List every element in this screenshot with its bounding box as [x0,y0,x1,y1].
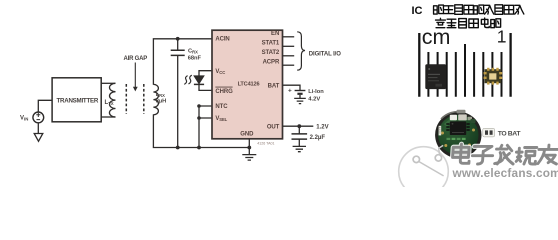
watermark logo [399,145,449,196]
wire [299,95,301,98]
wire CHRG [199,84,212,90]
svg-text:BAT: BAT [268,83,280,89]
junction [197,146,201,150]
coin PCB photo [435,110,481,158]
connector to battery [483,128,495,137]
svg-text:4126 TA01: 4126 TA01 [257,142,274,146]
voltage source VIN [20,112,44,123]
wire [101,116,115,118]
brace digital IO [297,32,305,70]
wire NTC/VSEL to ground rail [199,106,212,148]
op-amp? no: IC U1 LTC4126 body [212,30,283,139]
pin CHRG [215,87,233,95]
svg-text:LTX: LTX [105,100,114,106]
svg-text:VSEL: VSEL [215,116,227,122]
wire [101,82,115,84]
svg-text:EN: EN [271,31,279,37]
svg-text:LTC4126: LTC4126 [238,82,260,88]
transmitter block [52,78,101,122]
ruler ticks [419,33,510,97]
capacitor CRX 68nF [171,39,202,148]
svg-text:STAT2: STAT2 [262,50,280,56]
LED D1 [184,75,204,84]
inductor LRX 8uH [153,84,166,114]
svg-text:OUT: OUT [267,124,280,130]
wire BAT [283,85,301,90]
ground [294,98,306,103]
svg-text:8µH: 8µH [156,99,167,105]
wire OUT 1.2V [283,125,314,127]
watermark text [452,144,558,164]
ground [293,146,306,151]
IC photo bottom view (gold pads chip) [484,68,503,85]
junction [176,146,180,150]
svg-text:GND: GND [240,131,254,137]
junction [247,146,251,150]
svg-text:68nF: 68nF [188,56,202,62]
caption title line 1 [412,5,524,17]
svg-text:CHRG: CHRG [215,89,233,95]
svg-text:NTC: NTC [215,104,228,110]
wire EN stub [283,36,295,38]
svg-text:STAT1: STAT1 [262,41,280,47]
ground [34,123,43,142]
svg-text:ACPR: ACPR [263,60,280,66]
air gap dashed line right [143,84,145,114]
svg-text:+: + [288,88,292,95]
air gap dashed line left [125,84,127,114]
caption title line 2 [436,18,501,28]
junction [176,37,180,41]
svg-text:AIR GAP: AIR GAP [123,56,147,62]
svg-text:cm: cm [422,25,451,49]
svg-text:IC: IC [412,5,423,17]
wire [38,100,52,112]
svg-text:Li-Ion: Li-Ion [308,89,324,95]
wire [153,39,212,85]
svg-text:1: 1 [497,27,507,47]
svg-text:ACIN: ACIN [215,37,229,43]
svg-text:DIGITAL I/O: DIGITAL I/O [309,51,341,57]
svg-text:www.elecfans.com: www.elecfans.com [452,166,558,180]
junction [197,116,201,120]
wire STAT1 stub [283,45,295,47]
wire GND [248,139,250,155]
junction [197,104,201,108]
wire [153,114,249,147]
inductor LTX [105,83,116,117]
svg-text:1.2V: 1.2V [316,125,328,131]
battery BT1 Li-Ion 4.2V [288,88,324,103]
ground [242,155,256,161]
IC photo top view (black chip) [425,64,446,89]
svg-text:CRX: CRX [188,49,198,55]
svg-text:TRANSMITTER: TRANSMITTER [57,98,99,105]
wire ACPR stub [283,64,295,66]
wire STAT2 stub [283,55,295,57]
svg-text:LRX: LRX [156,92,165,98]
svg-text:TO BAT: TO BAT [498,130,522,137]
wire VCC [199,71,212,76]
svg-text:VIN: VIN [20,116,28,122]
air gap arrow [133,63,138,92]
svg-text:4.2V: 4.2V [308,97,320,103]
capacitor COUT 2.2uF [292,126,326,146]
svg-text:VCC: VCC [215,69,225,75]
svg-text:2.2µF: 2.2µF [310,135,326,141]
junction [297,124,301,128]
